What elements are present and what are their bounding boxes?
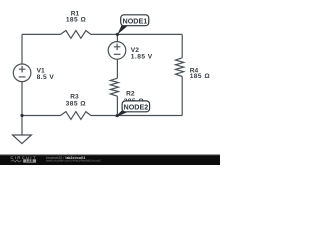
wire bottom rail right segment: [91, 115, 182, 117]
resistor R1: [61, 10, 91, 38]
svg-text:185 Ω: 185 Ω: [66, 16, 87, 23]
node NODE2 flag: [115, 101, 150, 118]
svg-text:8.5 V: 8.5 V: [37, 74, 55, 81]
svg-text:385 Ω: 385 Ω: [66, 100, 87, 107]
wire right rail upper: [181, 34, 183, 57]
resistor R2: [110, 78, 144, 105]
svg-text:LAB: LAB: [26, 159, 34, 163]
svg-text:www.circuitlab.com/c/e4acd4bw/: www.circuitlab.com/c/e4acd4bw/lab2circui…: [46, 158, 101, 162]
junction node at top (NODE1): [116, 33, 119, 36]
wire bottom rail left segment: [22, 115, 61, 117]
wire middle branch top: [116, 34, 118, 41]
svg-text:NODE2: NODE2: [124, 102, 149, 111]
footer watermark bar: [0, 155, 220, 165]
footer CircuitLab logo: [11, 155, 37, 163]
wire right rail lower: [181, 77, 183, 116]
wire middle branch bottom: [116, 96, 118, 115]
wire top rail right segment: [91, 33, 182, 35]
ground: [13, 135, 32, 144]
wire left rail lower: [21, 82, 23, 135]
resistor R4: [176, 58, 211, 80]
svg-text:1.85 V: 1.85 V: [131, 53, 153, 60]
voltage source V1: [13, 64, 54, 82]
voltage source V2: [108, 42, 153, 61]
junction node at bottom middle (NODE2): [116, 114, 119, 117]
footer credit text: [46, 156, 101, 162]
resistor R3: [61, 94, 91, 120]
wire top rail left segment: [22, 33, 61, 35]
node NODE1 flag: [117, 15, 149, 35]
junction node at bottom left: [20, 114, 23, 117]
svg-text:R2: R2: [126, 90, 135, 97]
svg-text:185 Ω: 185 Ω: [190, 73, 211, 80]
svg-text:NODE1: NODE1: [123, 16, 148, 25]
wire middle branch mid: [116, 59, 118, 78]
wire left rail upper: [21, 34, 23, 64]
